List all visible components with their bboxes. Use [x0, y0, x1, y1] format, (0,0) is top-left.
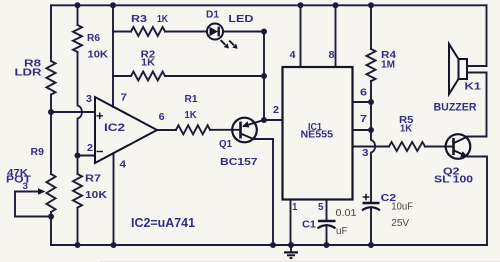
svg-text:R6: R6 [87, 33, 100, 44]
wire: V+ column to op-amp pin 7 [112, 5, 114, 107]
junction dot: pot bottom [48, 214, 54, 220]
svg-text:4: 4 [290, 50, 296, 61]
junction dot: node A (LDR / pot / pin3) [48, 109, 54, 115]
LED D1 cathode bar [217, 27, 219, 37]
wire: IC1 pin 1 to bottom rail [290, 200, 292, 246]
junction dot: bottom rail / IC1 pin 1 / ground [288, 242, 294, 248]
wire: C1 bottom plate to bottom rail [326, 225, 328, 245]
wire: pot junction down to bottom rail [50, 217, 52, 246]
wire: buzzer bottom terminal down to Q2 collector [468, 73, 487, 137]
svg-text:LDR: LDR [15, 68, 43, 79]
wire: IC1 pin 8 to top rail [335, 5, 337, 67]
wire: bottom ground rail [51, 244, 487, 246]
transistor Q1 emitter (arrow into base, PNP) [243, 120, 264, 126]
junction dot: LED corner [261, 29, 267, 35]
wire: R4 bottom through pin6 and pin7 nodes, hop over pin3 wire, to C2 [371, 81, 375, 203]
wire: pot bottom to junction [50, 212, 52, 217]
svg-text:C1: C1 [302, 219, 316, 231]
LED D1 triangle [210, 27, 219, 36]
wire: IC1 pin 4 to top rail [300, 5, 302, 67]
junction dot: bottom rail / C1 [324, 242, 330, 248]
buzzer K1 driver rectangle [459, 59, 468, 79]
svg-text:R3: R3 [131, 14, 148, 25]
capacitor C2 plus sign [363, 194, 370, 201]
transistor Q1 base bar [239, 122, 242, 139]
svg-text:3: 3 [86, 94, 92, 105]
wire: Q1 emitter node to IC1 pin 2 [264, 119, 283, 121]
svg-text:1K: 1K [141, 58, 156, 69]
junction dot: IC1 pin 6 / R4 [368, 99, 374, 105]
wire: R3 to LED anode [165, 31, 207, 33]
svg-text:R1: R1 [185, 94, 198, 105]
svg-text:R9: R9 [31, 147, 45, 158]
wire: LED corner down through R2 node to Q1 emitter node [263, 32, 265, 121]
wire: R3 left lead [113, 31, 131, 33]
wire: top supply rail [51, 4, 487, 6]
junction dot: bottom rail / C2 [368, 242, 374, 248]
resistor R3 [131, 27, 165, 36]
wire: R6 bottom with hop over pin3 wire, down to pin2 node [78, 52, 83, 156]
wire: Q1 collector to bottom rail [254, 139, 274, 245]
wire: R5 to Q2 base [425, 146, 454, 148]
op-amp minus input sign [97, 151, 104, 153]
svg-text:D1: D1 [206, 9, 219, 20]
transistor Q2 base bar [452, 138, 455, 155]
junction dot: top rail / V+ column [110, 2, 116, 8]
op-amp U: IC2 triangle [95, 97, 157, 163]
svg-text:SL 100: SL 100 [434, 175, 474, 186]
transistor Q2 emitter (arrow out, NPN) [454, 151, 464, 156]
wire: buzzer bottom terminal stub [467, 72, 487, 74]
svg-text:5: 5 [318, 202, 324, 213]
svg-text:1K: 1K [185, 110, 198, 121]
junction dot: top rail / IC1 pin 4 [298, 2, 304, 8]
svg-text:IC2: IC2 [104, 122, 125, 134]
svg-text:1K: 1K [400, 124, 413, 135]
svg-text:3: 3 [23, 181, 29, 191]
wire: LED cathode to corner [223, 31, 264, 33]
svg-text:10uF: 10uF [391, 201, 413, 213]
resistor R1 [176, 125, 210, 134]
pot wiper arrow shaft [15, 191, 40, 193]
svg-text:BC157: BC157 [220, 156, 258, 168]
wire: left column from top rail to LDR R8 [50, 5, 52, 61]
ground symbol [290, 245, 292, 252]
junction dot: top rail / R6 [75, 2, 81, 8]
capacitor C1 curved plate [318, 225, 336, 228]
svg-text:3: 3 [362, 148, 369, 159]
wire: IC1 pin 6 horizontal [353, 101, 372, 103]
wire: IC1 pin 7 horizontal [353, 129, 372, 131]
junction dot: bottom rail / op-amp pin 4 [111, 242, 117, 248]
svg-text:R7: R7 [85, 174, 102, 185]
junction dot: IC1 pin 7 / R4 [368, 127, 374, 133]
wire: op-amp pin 4 down to bottom rail [113, 153, 115, 245]
transistor Q1 collector [241, 134, 254, 139]
svg-text:6: 6 [360, 88, 368, 99]
svg-text:1M: 1M [381, 60, 395, 71]
svg-text:uF: uF [336, 225, 348, 237]
resistor R2 [131, 72, 165, 81]
transistor Q1 circle [232, 118, 257, 143]
wire: C2 bottom plate to bottom rail [370, 208, 372, 245]
resistor R6 [73, 25, 82, 52]
svg-text:NE555: NE555 [301, 129, 334, 141]
wire: buzzer top terminal stub [467, 65, 487, 67]
wire: R7 bottom to bottom rail [77, 208, 79, 245]
wire: pin2 node to R7 [77, 156, 79, 175]
svg-text:25V: 25V [391, 217, 409, 229]
svg-text:0.01: 0.01 [336, 207, 357, 219]
svg-text:LED: LED [228, 14, 253, 25]
svg-text:4: 4 [120, 160, 127, 171]
junction dot: Q1 emitter / IC1 pin2 [261, 117, 267, 123]
potentiometer R9 [47, 174, 56, 212]
wire: IC1 pin 3 output to R5 [353, 146, 390, 148]
svg-text:7: 7 [360, 114, 368, 125]
transistor Q2 circle [446, 134, 471, 159]
junction dot: top rail / IC1 pin 8 [333, 2, 339, 8]
wire: node A down to pot R9 [50, 112, 52, 174]
svg-text:K1: K1 [465, 82, 482, 93]
LED D1 circle [207, 24, 223, 40]
LED D1 emission arrow 1 [221, 40, 226, 45]
svg-text:1K: 1K [157, 14, 169, 25]
junction dot: bottom rail / Q1 collector [270, 242, 276, 248]
svg-text:6: 6 [159, 112, 165, 123]
wire: op-amp output to R1 [157, 129, 176, 131]
wire: R2 right lead to corner node [165, 75, 264, 77]
svg-text:IC2=uA741: IC2=uA741 [131, 216, 195, 230]
svg-text:10K: 10K [85, 190, 108, 201]
svg-text:1: 1 [292, 202, 297, 213]
resistor R4 [367, 49, 376, 81]
pot wiper arrowhead [38, 188, 46, 195]
resistor R7 [73, 174, 82, 208]
wire: R2 left lead [113, 75, 131, 77]
capacitor C2 top plate [363, 202, 380, 205]
svg-text:2: 2 [273, 105, 279, 116]
wire: IC1 pin 5 to C1 [326, 200, 328, 221]
op-amp plus input sign [97, 113, 104, 120]
junction dot: top rail / R4 [368, 2, 374, 8]
svg-text:7: 7 [121, 93, 128, 104]
svg-text:Q1: Q1 [219, 139, 232, 150]
svg-text:8: 8 [329, 50, 335, 61]
wire: R4 top lead from rail [370, 5, 372, 49]
junction dot: R2 / corner column [261, 73, 267, 79]
wire: LDR bottom to node A [50, 95, 52, 112]
wire: right column from top rail to buzzer top terminal [486, 5, 488, 66]
svg-text:10K: 10K [88, 50, 109, 61]
capacitor C1 top plate [318, 220, 336, 223]
transistor Q2 collector [454, 137, 468, 144]
resistor R5 [389, 142, 425, 151]
junction dot: bottom rail / R7 [75, 242, 81, 248]
wire: R6 top lead from rail [77, 5, 79, 25]
wire: pot wiper return L-wire [15, 192, 51, 217]
svg-text:2: 2 [87, 143, 93, 154]
wire: R1 to Q1 base [210, 129, 241, 131]
resistor R8 (LDR) [47, 61, 56, 95]
wire: Q2 emitter to bottom rail [468, 157, 488, 246]
buzzer K1 cone [449, 44, 459, 94]
wire: op-amp pin 2 horizontal [78, 155, 96, 157]
IC U: IC1 NE555 body [283, 67, 353, 200]
capacitor C2 curved plate [362, 207, 380, 210]
LED D1 emission arrow 2 [229, 41, 234, 46]
wire: node A to op-amp pin 3 [51, 111, 95, 113]
svg-text:BUZZER: BUZZER [434, 102, 477, 114]
junction dot: R6/R7 divider at op-amp pin 2 [75, 153, 81, 159]
